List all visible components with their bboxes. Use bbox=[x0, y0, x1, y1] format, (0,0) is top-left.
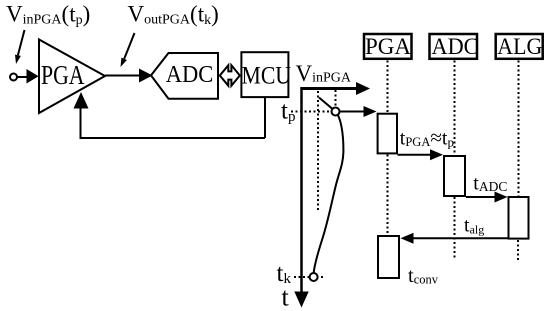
message arrow ALG to PGA bbox=[401, 233, 509, 244]
svg-text:PGA: PGA bbox=[41, 60, 85, 90]
wire input bbox=[17, 76, 28, 78]
arrow into PGA bottom bbox=[74, 92, 89, 109]
annotation arrow to output wire bbox=[121, 33, 135, 67]
t axis arrowhead bbox=[294, 292, 308, 308]
activation PGA bbox=[378, 114, 397, 154]
annotation arrow to PGA input bbox=[15, 30, 25, 64]
lifeline ADC dotted bbox=[454, 61, 456, 261]
svg-text:PGA: PGA bbox=[365, 34, 411, 60]
svg-text:ADC: ADC bbox=[432, 34, 479, 60]
MCU block bbox=[241, 52, 288, 97]
t_p point circle bbox=[332, 108, 340, 116]
message arrow PGA to ADC bbox=[398, 149, 444, 160]
feedback wire bbox=[81, 108, 266, 138]
lifeline ALG dotted bbox=[517, 61, 520, 261]
arrow into ADC bbox=[139, 69, 153, 83]
arrow into PGA bbox=[27, 69, 39, 84]
dotted vertical guide bbox=[317, 91, 319, 212]
t_k dotted line bbox=[294, 276, 323, 278]
curve V_inPGA(t) bbox=[314, 98, 344, 273]
input terminal bbox=[10, 74, 17, 81]
ADC block bbox=[151, 53, 218, 99]
message arrow t_p to PGA bbox=[340, 106, 377, 117]
svg-text:ALG: ALG bbox=[497, 34, 542, 60]
svg-text:ADC: ADC bbox=[166, 62, 214, 88]
lifeline head PGA bbox=[364, 34, 412, 60]
projection dotted t_p point to V axis bbox=[335, 90, 337, 107]
lifeline head ADC bbox=[430, 34, 479, 60]
t axis vertical bbox=[300, 87, 303, 292]
svg-text:MCU: MCU bbox=[242, 63, 292, 90]
lifeline PGA dotted bbox=[387, 61, 389, 236]
wire MCU down bbox=[264, 98, 266, 138]
wire PGA out bbox=[105, 75, 140, 77]
activation PGA t_conv bbox=[378, 236, 399, 278]
message arrow ADC to ALG bbox=[466, 192, 508, 203]
t_k point circle bbox=[310, 273, 318, 281]
op-amp PGA bbox=[39, 40, 105, 114]
V axis horizontal arrow bbox=[302, 82, 371, 95]
activation ALG bbox=[509, 197, 529, 239]
t_p dotted line bbox=[291, 111, 331, 113]
lifeline head ALG bbox=[496, 34, 543, 60]
activation ADC bbox=[444, 156, 465, 196]
double arrow ADC-MCU bbox=[220, 65, 240, 85]
